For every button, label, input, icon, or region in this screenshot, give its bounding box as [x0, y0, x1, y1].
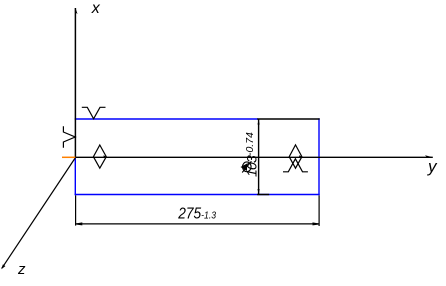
svg-text:y: y — [427, 157, 438, 176]
svg-text:z: z — [17, 261, 26, 278]
svg-text:x: x — [91, 0, 101, 17]
svg-text:275-1.3: 275-1.3 — [177, 206, 217, 223]
